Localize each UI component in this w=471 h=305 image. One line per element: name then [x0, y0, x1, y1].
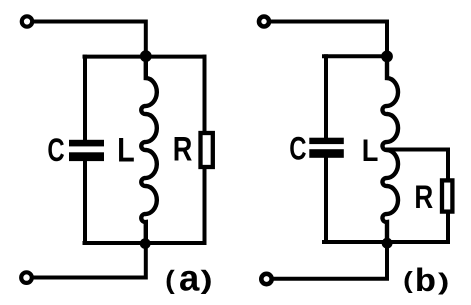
svg-text:R: R: [414, 179, 433, 215]
svg-text:L: L: [362, 133, 379, 169]
svg-text:R: R: [173, 129, 193, 168]
svg-text:): ): [433, 270, 453, 297]
svg-text:L: L: [117, 130, 135, 169]
svg-text:C: C: [289, 131, 306, 168]
svg-text:): ): [195, 268, 217, 297]
svg-text:(: (: [162, 268, 179, 297]
svg-text:C: C: [47, 132, 64, 168]
